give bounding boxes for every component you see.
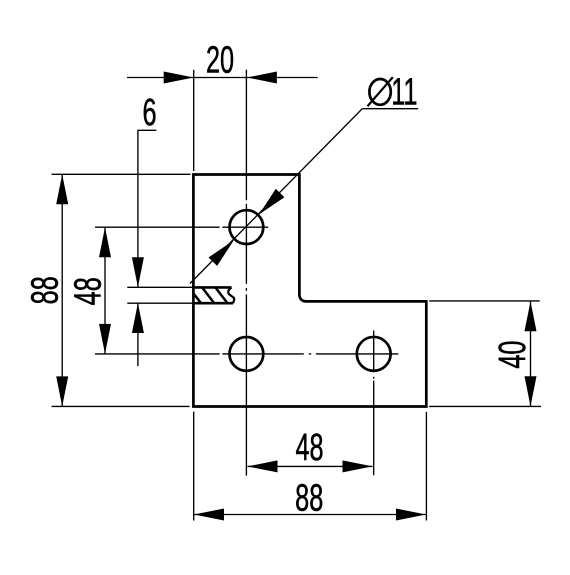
svg-text:6: 6 (142, 91, 156, 133)
svg-text:20: 20 (206, 38, 234, 80)
svg-text:88: 88 (23, 276, 65, 304)
svg-text:48: 48 (66, 277, 108, 305)
svg-text:88: 88 (295, 476, 323, 518)
svg-text:48: 48 (295, 426, 323, 468)
svg-text:11: 11 (391, 70, 417, 112)
svg-text:40: 40 (491, 341, 533, 369)
